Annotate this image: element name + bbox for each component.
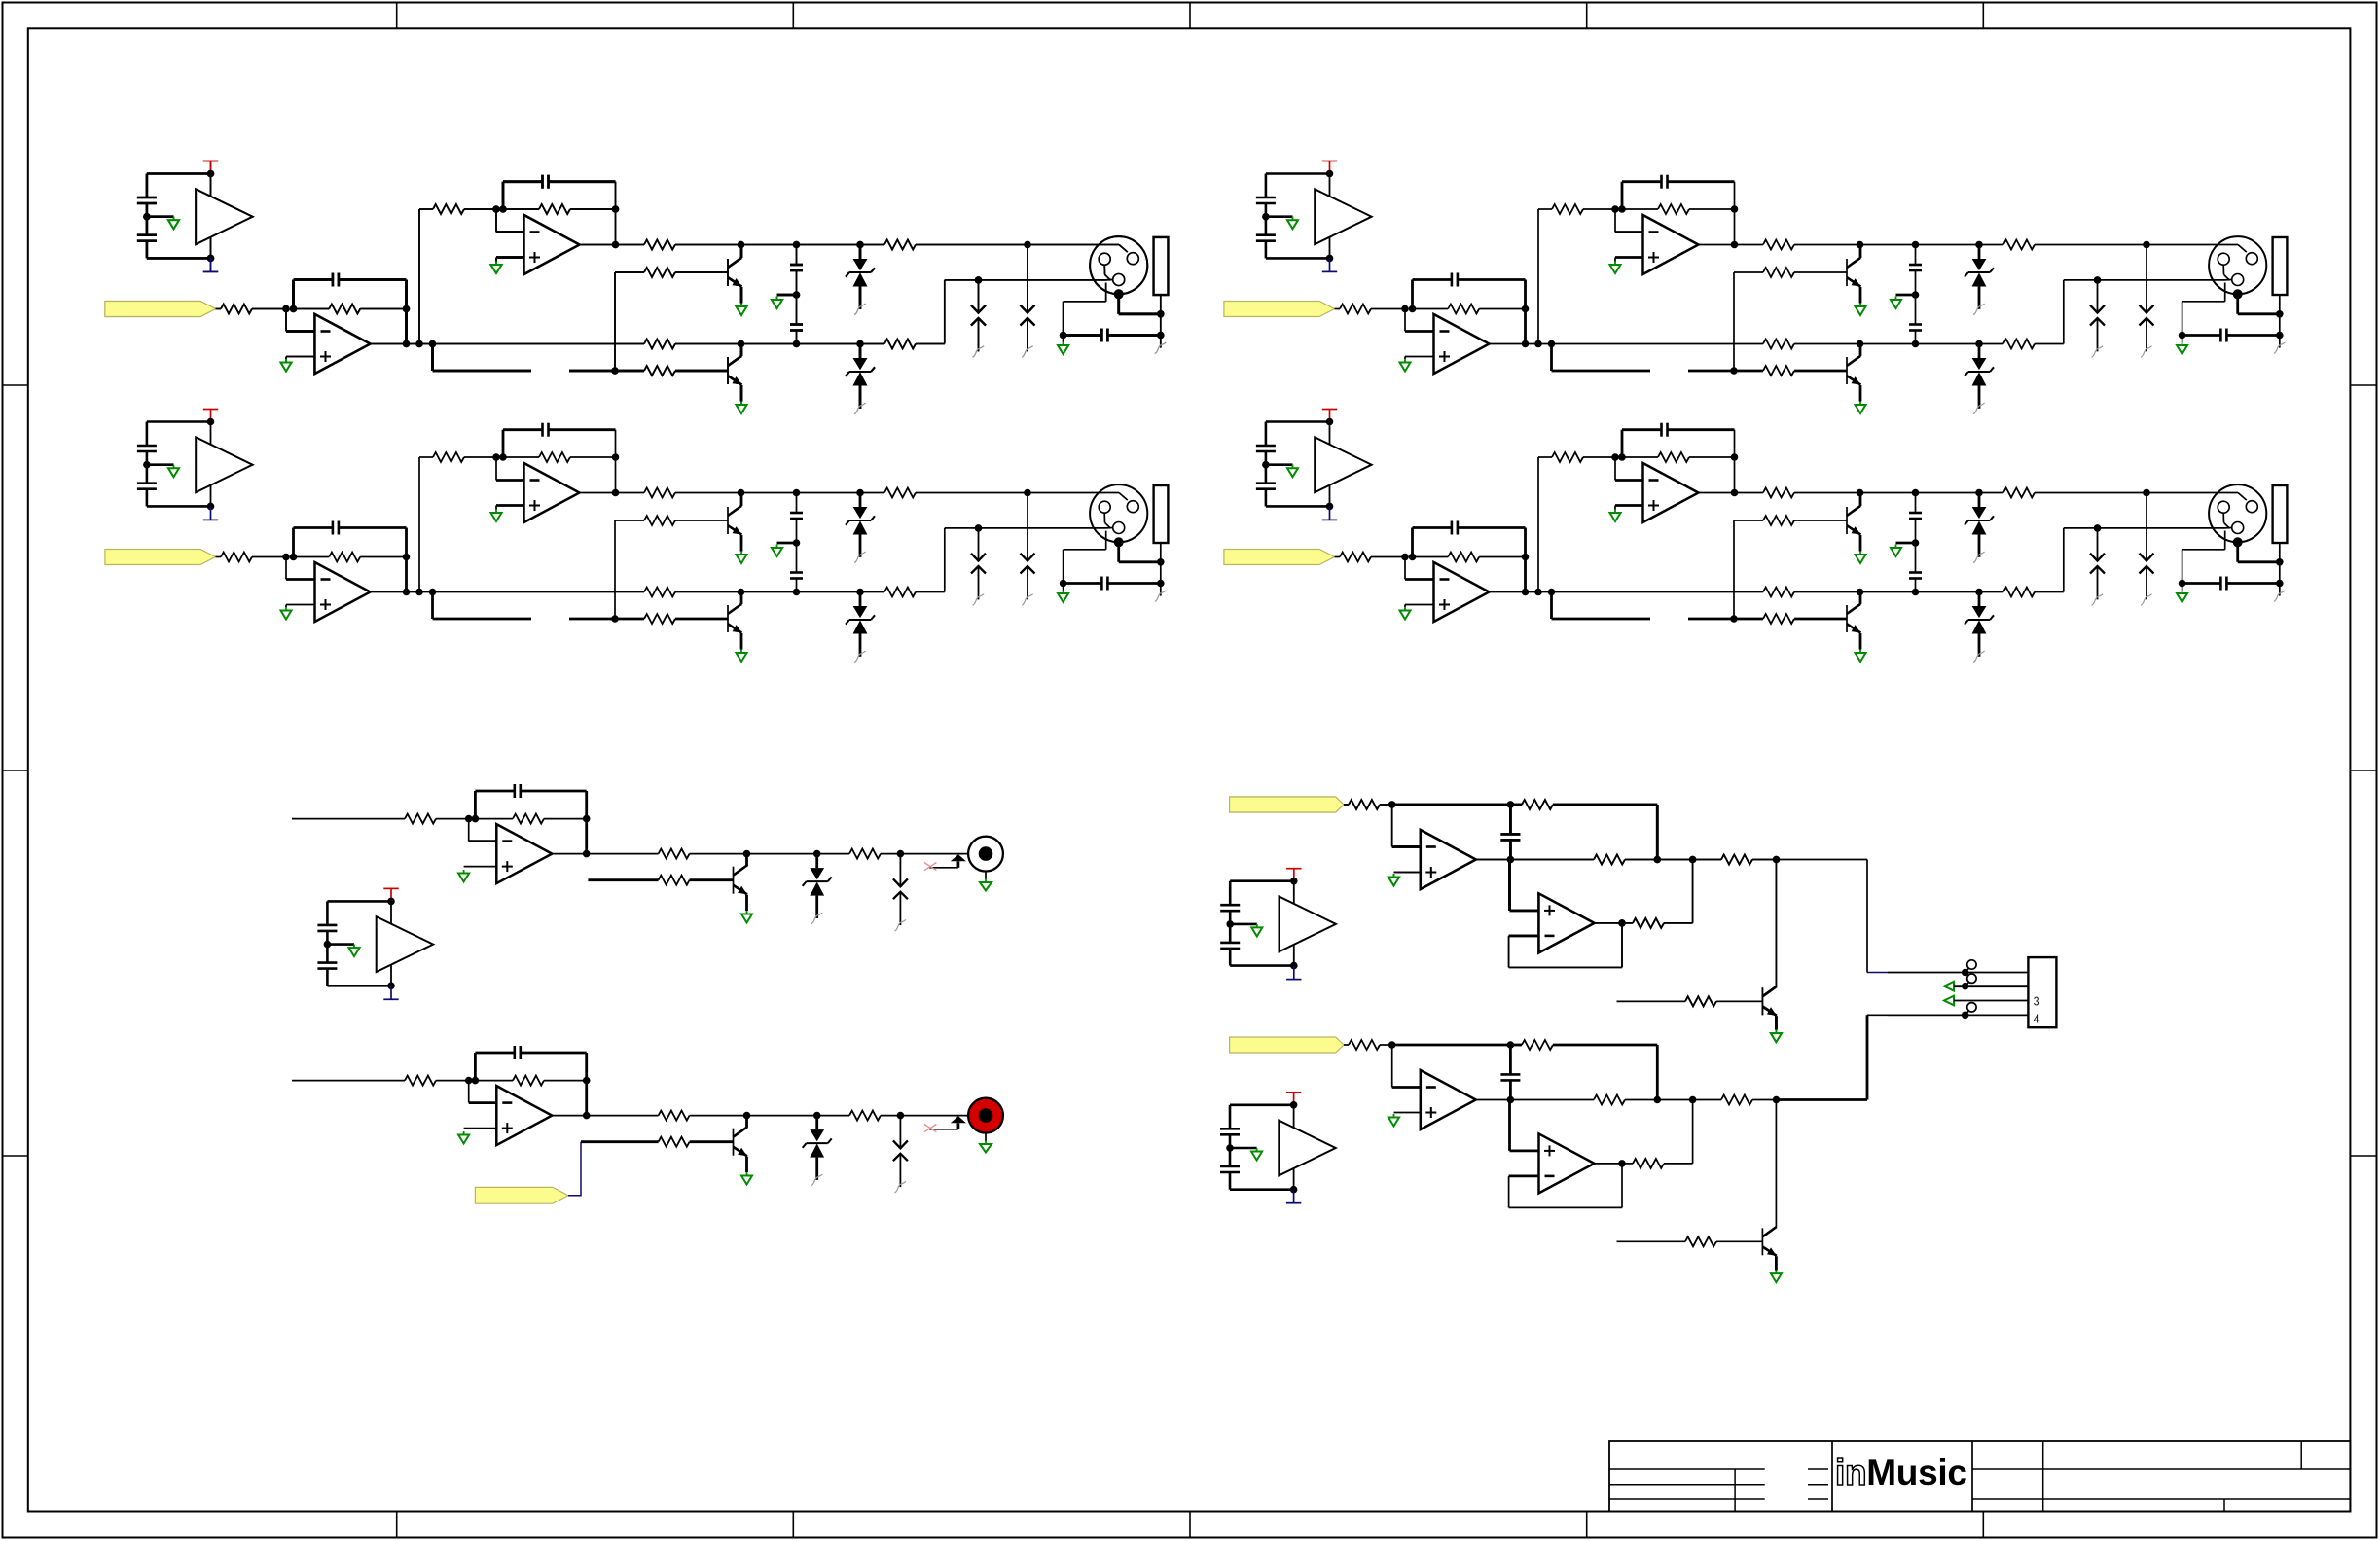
resistor R-fb R: [513, 1076, 544, 1086]
resistor R-o1 L: [659, 849, 690, 859]
wire HP2 out c: [1664, 922, 1693, 924]
wire fb leg HP: [1656, 805, 1659, 860]
svg-text:3: 3: [2034, 994, 2040, 1009]
wire shield right: [1119, 312, 1161, 315]
wire pin3 row: [1954, 1000, 2028, 1002]
headphone channel R: [1230, 1037, 1782, 1282]
transistor Q2: [728, 356, 741, 385]
node esd2: [1024, 241, 1031, 249]
pin arrow R: [951, 1116, 966, 1123]
wire Q emitter R: [745, 1157, 748, 1172]
channel block OUT-2 (bottom-left): [105, 410, 1169, 663]
wire arrow stem L: [957, 861, 960, 868]
resistor R-in L: [405, 814, 436, 824]
wire fbres left HP: [1510, 804, 1522, 806]
wire Q1 collector: [740, 245, 743, 259]
wire fb cap branch up: [292, 280, 295, 309]
wire RCA gnd R: [985, 1133, 987, 1141]
wire cold to pin3: [945, 279, 1105, 281]
wire out row b HP: [1625, 859, 1721, 861]
wire fb2 res right: [570, 208, 616, 210]
wire arrow tail L: [929, 867, 958, 869]
title block divider v6 bottom row: [2223, 1499, 2225, 1512]
wire pin3 gnd drop: [1063, 302, 1064, 336]
wire in node L: [436, 818, 469, 820]
wire inverting stub U2A: [496, 231, 524, 233]
resistor R-fb2: [539, 204, 570, 214]
zener TVS L: [803, 854, 832, 924]
connector RCA R: [968, 1098, 1003, 1133]
wire to inv HP: [1391, 805, 1393, 847]
wire in node R: [436, 1080, 469, 1082]
ground Q1e: [737, 304, 747, 316]
op-amp U-L: [496, 824, 552, 883]
wire fbres right HP: [1553, 804, 1657, 806]
node out a HP: [1507, 856, 1515, 864]
zener TVS R: [803, 1116, 832, 1186]
wire fbres right L: [544, 818, 587, 820]
connector XLR shell: [1090, 236, 1147, 294]
decoupling buffer U-pwr: [137, 161, 253, 272]
ground U+ R: [458, 1131, 469, 1144]
wire HP2 fb bottom: [1509, 966, 1622, 968]
wire out row right: [916, 343, 945, 345]
pin arrow L: [951, 854, 966, 861]
wire HP2+ up: [1508, 860, 1511, 911]
wire to R-s2: [419, 208, 433, 210]
wire input L: [292, 818, 405, 820]
wire HP-L run: [1888, 972, 2028, 974]
channel block OUT-1 (top-left): [105, 161, 1169, 414]
ground RCA L: [985, 879, 987, 883]
wire cap pair mid upper: [796, 270, 798, 295]
resistor R-b R: [659, 1137, 690, 1147]
wire fb cap right: [339, 278, 407, 281]
op-amp U1A: [315, 314, 371, 374]
wire pin3 jog: [1105, 279, 1113, 281]
frame zone tick top 4: [1586, 3, 1588, 29]
pin symbol P2: [1962, 983, 1969, 990]
wire Q2 collector: [740, 344, 743, 357]
node out c HP: [1773, 856, 1781, 864]
node Qc R: [743, 1112, 751, 1120]
resistor R-o2 HP: [1721, 855, 1752, 865]
capacitor C-fb L: [513, 784, 516, 798]
node tvs R: [813, 1112, 821, 1120]
wire RCA gnd L: [985, 872, 987, 879]
resistor R-cold2: [884, 340, 916, 349]
wire out row mid: [675, 343, 884, 345]
wire gnd stub XLR: [1063, 336, 1064, 342]
frame zone tick right 2: [2350, 770, 2377, 771]
wire noninv stub U1A: [286, 356, 315, 358]
frame zone tick top 1: [396, 3, 398, 29]
frame zone tick top 3: [1189, 3, 1191, 29]
wire inv stub L: [469, 840, 497, 842]
wire out2 row mid: [675, 244, 884, 246]
wire out2 row right: [916, 244, 1119, 246]
resistor R-fb1: [329, 305, 360, 314]
node gnd cap right: [1157, 332, 1165, 340]
node tvs L: [813, 850, 821, 858]
ground U+ L: [458, 870, 469, 882]
title block rows right: [1972, 1468, 2350, 1470]
frame zone tick left 3: [3, 1155, 28, 1157]
net flag input HP: [1230, 797, 1344, 812]
wire inverting stub: [286, 330, 315, 333]
node fb L: [583, 815, 591, 823]
wire base1 right: [675, 271, 728, 273]
title block divider v4: [2042, 1441, 2044, 1512]
wire noninv down U2A: [495, 258, 497, 262]
node fb2: [612, 205, 620, 213]
capacitor C-gnd: [1100, 329, 1103, 342]
wire HP-L run navy: [1867, 972, 1888, 974]
wire fb2 cap left: [503, 180, 543, 183]
svg-text:inMusic: inMusic: [1835, 1452, 1967, 1492]
node inA L: [465, 815, 473, 823]
wire Q emitter L: [745, 895, 748, 911]
wire out row a HP: [1476, 859, 1594, 861]
wire out row3 R: [881, 1115, 979, 1117]
node out2-a: [612, 241, 620, 249]
resistor R-b L: [659, 876, 690, 885]
wire pin2 stub: [1103, 265, 1105, 274]
wire out row c HP: [1752, 859, 1777, 861]
node shield join: [1157, 310, 1165, 318]
resistor R-b HP: [1685, 996, 1716, 1006]
wire fb leg R: [585, 1053, 588, 1116]
wire base1 feed vertical: [614, 272, 616, 371]
wire HP-R run: [1888, 1014, 2028, 1016]
diode ESD R: [893, 1116, 908, 1193]
wire gnd cap right seg: [1107, 334, 1160, 337]
node Q1 collector: [738, 241, 745, 249]
node fb top HP: [1507, 801, 1515, 808]
wire fbcap left L: [475, 790, 514, 793]
diode ESD1: [971, 280, 986, 357]
wire HP2- down: [1508, 936, 1510, 968]
node inA R: [465, 1077, 473, 1085]
channel block OUT-4 (bottom-right): [1224, 410, 2287, 663]
wire HP-R run out: [1777, 1098, 1868, 1101]
node tvs1: [856, 241, 864, 249]
wire fb right leg: [405, 280, 408, 344]
op-amp U-R: [496, 1086, 552, 1145]
wire noninv down U1A: [285, 357, 287, 360]
ground HP1+: [1388, 874, 1399, 886]
wire cap pair top lead: [796, 245, 798, 266]
wire fb2 cap right: [549, 180, 616, 183]
wire inv stub R: [469, 1101, 497, 1104]
wire up to stage2: [418, 209, 420, 344]
node gnd cap left: [1060, 332, 1067, 340]
node out1-a: [403, 340, 411, 348]
wire term lead: [1160, 295, 1162, 348]
node inB R: [472, 1077, 480, 1085]
resistor R-b1: [644, 268, 675, 277]
decoupling buffer U-pwr HP-L: [1220, 869, 1336, 980]
wire out row2 R: [690, 1115, 849, 1117]
wire base row HP: [1617, 1000, 1686, 1002]
wire Q collector R: [745, 1116, 748, 1129]
wire ESD2 lead: [1027, 245, 1028, 280]
title block divider v2: [1831, 1441, 1833, 1512]
node esd R: [897, 1112, 905, 1120]
node out a L: [583, 850, 591, 858]
resistor R-fb L: [513, 814, 544, 824]
XLR pin 2: [1099, 253, 1110, 265]
wire R-in to node: [252, 308, 286, 310]
wire to inv R: [468, 1081, 470, 1103]
net flag mute R: [475, 1187, 568, 1203]
ground U1A+: [281, 359, 292, 372]
node inB L: [472, 815, 480, 823]
node in HP: [1388, 801, 1396, 808]
wire HP2 up join: [1692, 860, 1694, 923]
wire lower path down: [431, 344, 434, 372]
resistor R-s2in: [433, 204, 464, 214]
wire fbcap right R: [521, 1052, 587, 1055]
wire noninv stub L: [464, 866, 497, 868]
ground Qe R: [741, 1172, 752, 1185]
op-amp U-HP2: [1539, 893, 1595, 952]
wire HP2 out b: [1622, 922, 1633, 924]
wire arrow stem R: [957, 1123, 960, 1129]
wire out row1 L: [552, 853, 658, 855]
wire noninv stub R: [464, 1128, 497, 1129]
ground Q-HP: [1771, 1030, 1782, 1043]
capacitor C-fb1: [332, 273, 335, 287]
title block divider v5 top row: [2300, 1441, 2302, 1469]
capacitor C-p2: [790, 323, 803, 326]
wire pin3 gnd down: [1105, 283, 1107, 302]
op-amp U2A: [524, 215, 580, 274]
node esd1: [975, 276, 983, 284]
decoupling buffer U-pwr HP-R: [1220, 1093, 1336, 1203]
wire HP2- stub: [1509, 935, 1539, 938]
wire cap pair bottom lead: [796, 331, 798, 344]
wire gnd cap left seg: [1064, 334, 1102, 337]
wire to inverting input: [285, 309, 287, 332]
node tvs2: [856, 340, 864, 348]
wire HP-R run navy: [1867, 1014, 1888, 1016]
wire cap pair mid lower: [796, 295, 798, 325]
wire fb res right: [360, 308, 406, 310]
wire pin2 diag: [1105, 274, 1111, 280]
wire Q1 emitter: [740, 287, 743, 304]
title block rows left: [1609, 1468, 1765, 1470]
wire base1 left: [615, 271, 644, 273]
frame zone tick top 5: [1982, 3, 1984, 29]
connector RCA L: [968, 837, 1003, 872]
frame zone tick bottom 4: [1586, 1512, 1588, 1539]
resistor R-in R: [405, 1076, 436, 1086]
capacitor C-int HP: [1500, 833, 1520, 836]
node Q2 collector: [738, 340, 745, 348]
wire Q collector HP stub: [1775, 986, 1778, 988]
wire op2 output row: [580, 244, 645, 246]
wire HP-L run out: [1777, 859, 1868, 861]
wire HP2 out a: [1595, 922, 1623, 924]
zener TVS2: [846, 344, 875, 414]
wire cap bottom HP: [1509, 840, 1512, 859]
wire cap mid stub: [777, 294, 797, 297]
svg-text:4: 4: [2034, 1012, 2040, 1026]
resistor R-hp2: [1633, 918, 1664, 928]
wire Q emitter HP: [1775, 1016, 1778, 1029]
resistor R-cold1: [644, 340, 675, 349]
node cap top: [793, 241, 801, 249]
node HP2 out: [1618, 919, 1626, 927]
wire HP-L drop: [1866, 860, 1868, 973]
node in-B: [290, 305, 298, 313]
title block divider v1: [1734, 1469, 1736, 1512]
resistor R-hot2: [884, 240, 916, 250]
wire base right R: [690, 1140, 734, 1143]
wire out row1 R: [552, 1115, 658, 1117]
dnp cross L: [924, 863, 937, 871]
wire R to node HP: [1380, 804, 1392, 806]
frame zone tick right 1: [2350, 384, 2377, 386]
wire HP-R rise: [1866, 1015, 1869, 1099]
wire R-s2 to node: [464, 208, 503, 210]
wire shield down: [1117, 294, 1120, 314]
wire HP2+ stub: [1510, 910, 1539, 913]
node out1-c: [429, 340, 437, 348]
node in-A: [282, 305, 290, 313]
wire lower path b: [569, 370, 615, 373]
frame zone tick left 2: [3, 770, 28, 771]
wire fbcap up L: [474, 791, 477, 819]
connector J-HP body: [2028, 957, 2056, 1027]
ground cap mid: [772, 297, 782, 309]
wire arrow tail R: [929, 1129, 958, 1130]
XLR pin 1: [1127, 253, 1138, 265]
wire fbcap right L: [521, 790, 587, 793]
resistor R-in HP: [1349, 800, 1380, 809]
wire Q collector L: [745, 854, 748, 867]
resistor R-o1 HP: [1594, 855, 1625, 865]
net flag input: [105, 302, 216, 317]
wire base2 right: [675, 370, 728, 373]
node out a R: [583, 1112, 591, 1120]
resistor R-o1 R: [659, 1111, 690, 1121]
wire lower path a: [433, 370, 532, 373]
wire flag to R-in: [216, 308, 222, 310]
diode ESD2: [1021, 280, 1035, 357]
capacitor C-fb R: [513, 1046, 516, 1059]
transistor Q R: [734, 1128, 747, 1157]
wire noninv stub U2A: [496, 256, 524, 259]
resistor R-b2: [644, 366, 675, 376]
capacitor C-fb2: [541, 175, 544, 189]
wire cold rise: [944, 280, 946, 344]
wire base right L: [690, 878, 734, 881]
node s2-a: [492, 205, 500, 213]
wire top row HP: [1392, 804, 1511, 806]
node out1-b: [415, 340, 423, 348]
wire Q collector HP: [1775, 860, 1777, 987]
node esd L: [897, 850, 905, 858]
wire pin3 gnd left: [1064, 301, 1106, 303]
ground XLR cap: [1058, 342, 1068, 355]
wire HP2 fb up: [1621, 923, 1623, 968]
ground U2A+: [491, 262, 502, 274]
wire fb2 res left: [503, 208, 539, 210]
frame zone tick bottom 2: [792, 1512, 794, 1539]
ground arrow net 2: [1944, 982, 1954, 991]
wire base row R: [581, 1140, 659, 1143]
pin symbol P1: [1962, 969, 1969, 977]
wire fb2 right leg: [615, 182, 617, 245]
wire flag to R HP: [1344, 804, 1349, 806]
wire to inverting U2A: [495, 209, 497, 233]
transistor Q1: [728, 258, 741, 287]
ground Qe L: [741, 911, 752, 923]
wire op1 output row: [371, 343, 645, 345]
diode ESD L: [893, 854, 908, 931]
wire base right HP: [1716, 1000, 1762, 1002]
resistor R-in: [221, 305, 252, 314]
ground RCA R: [985, 1141, 987, 1145]
wire input R: [292, 1080, 405, 1082]
decoupling buffer U-pwr RCA: [317, 888, 433, 999]
title block outline: [1609, 1441, 2350, 1512]
node fb join HP: [1654, 856, 1662, 864]
node fb R: [583, 1077, 591, 1085]
wire fbcap up R: [474, 1053, 477, 1081]
node fb1: [403, 305, 411, 313]
pin symbol P4: [1962, 1012, 1969, 1020]
wire fb res left: [294, 308, 330, 310]
wire navy mute link R: [568, 1142, 581, 1196]
wire out row3 L: [881, 853, 979, 855]
node shield: [1114, 289, 1124, 299]
node out b HP: [1689, 856, 1697, 864]
resistor R-term (box): [1154, 237, 1169, 295]
zener TVS1: [846, 245, 875, 315]
channel block OUT-3 (top-right): [1224, 161, 2287, 414]
dnp cross R: [924, 1125, 937, 1132]
frame zone tick right 3: [2350, 1155, 2377, 1157]
wire base dangle L: [588, 878, 658, 881]
node cap bottom: [793, 340, 801, 348]
frame zone tick bottom 1: [396, 1512, 398, 1539]
wire fbres left L: [475, 818, 513, 820]
wire base2 left: [615, 370, 644, 373]
transistor Q-HP: [1762, 986, 1776, 1016]
resistor R-o2 R: [849, 1111, 881, 1121]
headphone channel L: [1230, 797, 1782, 1042]
wire cap top HP: [1509, 805, 1512, 834]
wire hot diag to pin1: [1119, 245, 1128, 253]
ground Q2e: [737, 402, 747, 414]
wire fb2 cap up: [502, 182, 505, 209]
ground arrow net 3: [1944, 996, 1954, 1006]
wire to inv L: [468, 819, 470, 842]
node base2 feed: [611, 367, 619, 375]
frame zone tick left 1: [3, 384, 28, 386]
frame zone tick bottom 5: [1982, 1512, 1984, 1539]
wire fb leg L: [585, 791, 588, 854]
resistor R-fb HP: [1522, 800, 1553, 809]
wire fbcap left R: [475, 1052, 514, 1055]
wire out row2 L: [690, 853, 849, 855]
node cap mid: [793, 291, 801, 299]
transistor Q L: [734, 866, 747, 895]
node s2-b: [499, 205, 507, 213]
